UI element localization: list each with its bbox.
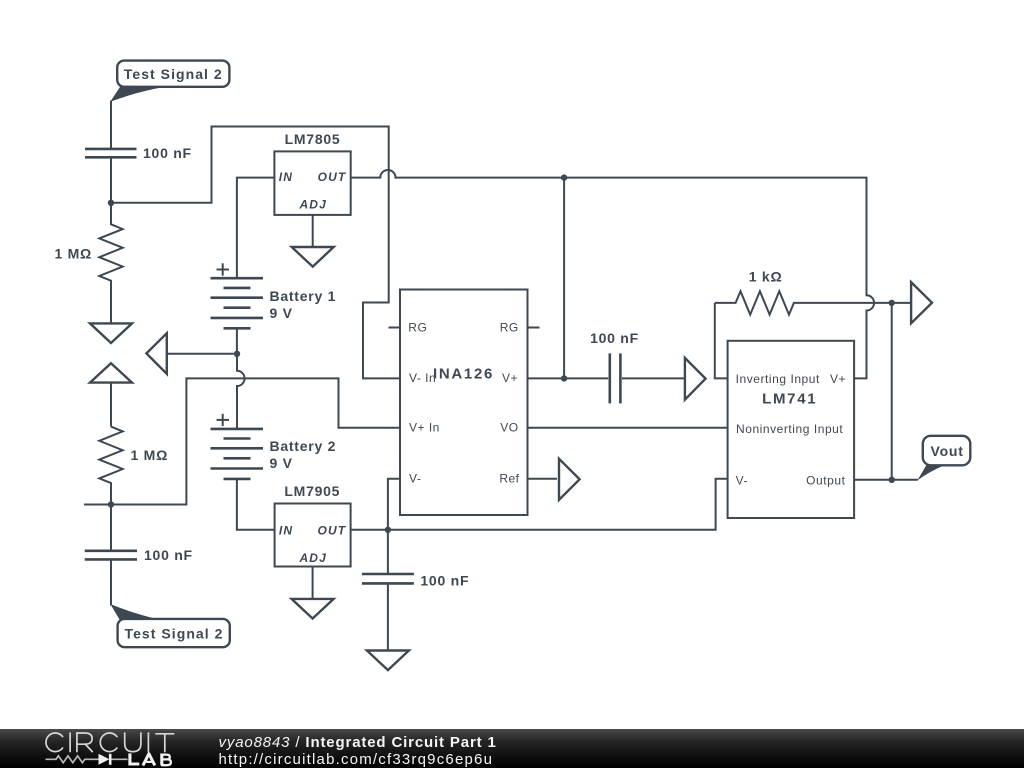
svg-text:ADJ: ADJ xyxy=(299,551,327,565)
svg-text:LM7905: LM7905 xyxy=(284,483,340,499)
svg-text:RG: RG xyxy=(408,321,427,335)
capacitor C1 100 nF xyxy=(85,145,192,161)
wire node down to output node xyxy=(891,303,893,480)
svg-text:Ref: Ref xyxy=(499,472,519,486)
instrumentation amplifier U1 INA126 xyxy=(389,290,540,516)
wire battery 2 to LM7905 IN xyxy=(237,479,275,530)
svg-text:1 MΩ: 1 MΩ xyxy=(54,245,92,261)
svg-text:http://circuitlab.com/cf33rq9c: http://circuitlab.com/cf33rq9c6ep6u xyxy=(219,751,494,768)
svg-text:Output: Output xyxy=(806,474,845,488)
svg-text:9 V: 9 V xyxy=(270,455,293,471)
wire C4 to ground xyxy=(387,583,389,650)
wire rail node down to V+ wire xyxy=(563,178,565,379)
battery B2 (Battery 2, 9 V) xyxy=(211,414,337,479)
wire C2 to bottom flag xyxy=(110,559,112,605)
ground below C4 xyxy=(367,651,409,671)
CircuitLab logo diode symbol xyxy=(99,754,112,765)
CircuitLab logo wordmark CIRCUIT (vector letters) xyxy=(46,733,174,752)
CircuitLab logo mini-schematic (resistor and diode) xyxy=(46,756,128,763)
wire flipped ground to R2 xyxy=(110,383,112,427)
flag Vout xyxy=(917,436,970,481)
svg-text:100 nF: 100 nF xyxy=(420,573,469,589)
svg-text:100 nF: 100 nF xyxy=(143,145,192,161)
capacitor C4 100 nF xyxy=(362,573,469,589)
wire LM7805 IN to battery 1 xyxy=(237,178,275,279)
op-amp U4 LM741 xyxy=(728,341,855,518)
svg-text:V-: V- xyxy=(409,472,421,486)
svg-text:100 nF: 100 nF xyxy=(590,330,639,346)
svg-text:VO: VO xyxy=(500,421,518,435)
terminal triangle (left-pointing) xyxy=(146,333,166,374)
wire LM7805 OUT rail (hops V- In drop, down right side to LM741 V+) xyxy=(351,170,874,378)
battery B1 (Battery 1, 9 V) xyxy=(211,263,337,328)
node at R2/C2 junction xyxy=(108,501,114,507)
svg-text:V-: V- xyxy=(736,474,748,488)
capacitor C5 100 nF xyxy=(590,330,639,404)
wire LM7905 ADJ to ground xyxy=(312,567,314,599)
resistor R1 1 MOhm xyxy=(54,203,122,324)
svg-text:Battery 2: Battery 2 xyxy=(270,438,337,454)
resistor R2 1 MOhm xyxy=(99,427,168,505)
resistor R3 1 kOhm (feedback) xyxy=(715,268,892,314)
wire LM7805 ADJ to ground xyxy=(312,215,314,247)
wire INA126 V- down to C4 xyxy=(388,479,400,574)
wire node to terminal triangle xyxy=(892,302,911,304)
svg-text:Vout: Vout xyxy=(931,443,964,459)
node at C1/R1 junction xyxy=(108,200,114,206)
wire node to top rail to INA126 V- In xyxy=(111,127,400,379)
svg-text:Test Signal 2: Test Signal 2 xyxy=(124,66,223,82)
svg-text:LM741: LM741 xyxy=(762,390,817,407)
svg-text:INA126: INA126 xyxy=(433,365,494,382)
wire INA126 Ref to terminal triangle xyxy=(528,478,558,480)
node on OUT rail xyxy=(561,174,567,180)
wire node up-over to INA126 V+ In xyxy=(111,378,400,504)
svg-text:OUT: OUT xyxy=(318,170,347,184)
svg-text:Battery 1: Battery 1 xyxy=(270,288,337,304)
flag Test Signal 2 (bottom) xyxy=(110,604,229,647)
wire INA126 V+ to C5 xyxy=(528,377,609,379)
wire C5 to terminal triangle xyxy=(622,377,685,379)
svg-text:OUT: OUT xyxy=(318,523,347,537)
svg-text:IN: IN xyxy=(279,170,293,184)
svg-text:V+: V+ xyxy=(502,371,518,385)
svg-text:LM7805: LM7805 xyxy=(285,131,341,147)
wire flag to C1 xyxy=(110,101,112,149)
terminal triangle (right-pointing, top right) xyxy=(911,282,932,323)
node on V+ wire xyxy=(561,375,567,381)
CircuitLab logo wordmark LAB (vector letters) xyxy=(130,753,171,765)
wire battery 1 to node xyxy=(236,328,238,354)
svg-text:1 MΩ: 1 MΩ xyxy=(131,447,169,463)
svg-text:100 nF: 100 nF xyxy=(144,547,193,563)
voltage regulator U2 LM7805 xyxy=(274,131,350,215)
svg-text:Inverting Input: Inverting Input xyxy=(736,372,820,386)
wire node to battery 2 (hops over V+ In wire) xyxy=(237,354,245,429)
ground below LM7805 xyxy=(292,247,334,267)
wire LM741 output to Vout flag xyxy=(854,479,918,481)
flag Test Signal 2 (top) xyxy=(110,61,229,102)
svg-text:ADJ: ADJ xyxy=(299,197,327,211)
capacitor C2 100 nF xyxy=(85,547,193,563)
svg-text:1 kΩ: 1 kΩ xyxy=(749,268,783,284)
svg-text:V+ In: V+ In xyxy=(409,421,440,435)
node on LM7905 OUT rail xyxy=(385,527,391,533)
ground (flipped, above R2) xyxy=(90,363,132,382)
terminal triangle (right-pointing, after C5) xyxy=(685,358,706,400)
wire stub left of node xyxy=(84,504,111,506)
wire node to C2 xyxy=(110,505,112,551)
node on output wire xyxy=(889,477,895,483)
svg-text:vyao8843 / Integrated Circuit: vyao8843 / Integrated Circuit Part 1 xyxy=(219,734,497,751)
ground below R1 xyxy=(90,323,132,343)
terminal triangle (right-pointing, at Ref) xyxy=(559,459,580,500)
voltage regulator U3 LM7905 xyxy=(275,483,351,567)
node right of R3 xyxy=(889,300,895,306)
wire LM7905 OUT to LM741 V- xyxy=(351,479,728,530)
node below battery 1 xyxy=(234,351,240,357)
svg-text:RG: RG xyxy=(500,321,519,335)
wire C1 to node xyxy=(110,157,112,203)
svg-text:Noninverting Input: Noninverting Input xyxy=(736,422,843,436)
wire INA126 VO to LM741 noninverting input xyxy=(528,427,728,429)
wire R3 left lead down to LM741 inverting input xyxy=(715,303,728,379)
wire triangle to node xyxy=(167,353,234,355)
svg-text:V+: V+ xyxy=(830,372,846,386)
ground below LM7905 xyxy=(292,599,334,619)
svg-text:Test Signal 2: Test Signal 2 xyxy=(125,625,224,641)
svg-text:9 V: 9 V xyxy=(270,305,293,321)
svg-text:IN: IN xyxy=(279,523,293,537)
